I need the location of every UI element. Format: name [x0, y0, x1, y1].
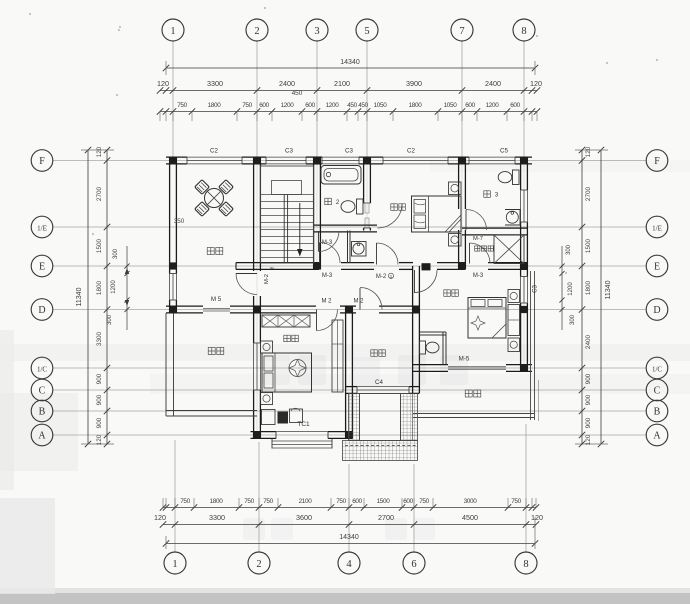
terrace door M-5 threshold	[203, 308, 230, 310]
faint watermark blobs	[243, 355, 468, 540]
dark jamb stub on E wall right of bedroom3 door	[422, 263, 431, 270]
bath3 door arc	[466, 210, 487, 231]
bedroom1 label	[284, 335, 299, 342]
storage room top wall	[462, 227, 528, 229]
svg-text:E: E	[654, 261, 660, 272]
svg-text:120: 120	[531, 513, 543, 522]
bedroom2 door arc on E wall	[377, 243, 399, 265]
svg-text:750: 750	[511, 498, 521, 505]
svg-text:900: 900	[585, 417, 592, 428]
window on left wall E-D	[169, 274, 171, 301]
window C3 top wall 2-3	[266, 156, 306, 158]
svg-text:120: 120	[96, 146, 103, 157]
svg-text:1/E: 1/E	[37, 224, 47, 232]
bedroom1 long cabinet along wall4	[332, 320, 343, 392]
window C2 top wall 1-2	[187, 156, 242, 158]
dim line overall top 14340	[166, 67, 535, 69]
dim line right overall 11340	[600, 150, 602, 444]
grid bubbles bottom	[164, 552, 186, 574]
bedroom3 bed	[468, 298, 506, 339]
dim line left overall 11340	[87, 150, 89, 444]
svg-text:600: 600	[510, 102, 520, 109]
window C2 top wall 5-7	[383, 156, 448, 158]
bedroom1 bedside south	[261, 393, 273, 405]
svg-text:C4: C4	[375, 379, 383, 386]
bath lobby partition x348	[347, 231, 349, 264]
svg-text:C2: C2	[407, 148, 415, 155]
construction grid lines vertical top	[172, 41, 174, 157]
bedroom1 bed	[262, 353, 312, 392]
svg-text:M-7: M-7	[473, 236, 483, 242]
svg-text:1/C: 1/C	[37, 365, 47, 373]
svg-text:1800: 1800	[585, 280, 592, 295]
bathtub bath2	[321, 166, 361, 185]
svg-text:1200: 1200	[486, 102, 500, 109]
bay window TC1	[271, 439, 273, 449]
bedroom2 bedside tables	[449, 182, 462, 195]
construction grid lines vertical bottom	[174, 440, 176, 552]
outer wall left (grid 1) F to D	[169, 157, 171, 274]
svg-text:M-2: M-2	[264, 274, 270, 284]
svg-text:900: 900	[96, 373, 103, 384]
dining table round with chairs	[205, 189, 224, 208]
svg-text:600: 600	[352, 498, 362, 505]
toilet bath2	[357, 199, 364, 214]
bedroom1 bedside north	[261, 341, 273, 353]
svg-text:120: 120	[585, 434, 592, 445]
svg-text:450: 450	[292, 90, 303, 97]
svg-text:M-5: M-5	[459, 356, 470, 363]
svg-text:1050: 1050	[374, 102, 388, 109]
bath partition wall y227	[314, 224, 378, 226]
svg-text:3: 3	[314, 26, 319, 37]
dim line top row1	[160, 90, 537, 92]
svg-text:M-2: M-2	[376, 274, 387, 280]
door arc bedroom2 on wall 5	[378, 204, 403, 229]
svg-text:450: 450	[347, 102, 357, 109]
svg-text:1: 1	[172, 559, 177, 570]
svg-text:1200: 1200	[281, 102, 295, 109]
door arc bath lobby lower (M-3 on E)	[320, 243, 341, 264]
svg-text:2100: 2100	[334, 79, 350, 88]
svg-text:C5: C5	[500, 148, 508, 155]
svg-text:600: 600	[305, 102, 315, 109]
dining label	[207, 248, 223, 255]
grid bubbles top	[162, 19, 184, 41]
svg-text:C3: C3	[285, 148, 293, 155]
grid bubbles left	[31, 150, 53, 172]
svg-text:1500: 1500	[377, 498, 391, 505]
svg-text:1800: 1800	[208, 102, 222, 109]
svg-text:1: 1	[170, 26, 175, 37]
svg-text:F: F	[39, 156, 45, 167]
svg-text:M 2: M 2	[321, 299, 332, 305]
balcony label	[465, 390, 481, 397]
svg-text:B: B	[39, 406, 46, 417]
wall grid 4 D to A	[345, 306, 347, 439]
dim line right window chain 300 1200 300	[561, 246, 563, 330]
door arc bath lobby upper	[319, 231, 340, 252]
wall grid 5 bath right	[363, 157, 365, 203]
outer wall top (F)	[166, 156, 187, 158]
bedroom1 wardrobe	[262, 315, 310, 327]
dining niche end cap	[235, 263, 237, 270]
bedroom1 dresser and stool	[262, 410, 276, 425]
grid bubbles right	[646, 150, 668, 172]
svg-text:600: 600	[465, 102, 475, 109]
svg-text:2700: 2700	[585, 186, 592, 201]
svg-text:120: 120	[585, 146, 592, 157]
svg-text:750: 750	[263, 498, 273, 505]
room C4 labels	[371, 350, 386, 357]
porch step dashed line	[345, 445, 416, 447]
vertical construction lines through plan	[256, 164, 258, 431]
svg-text:C: C	[654, 385, 661, 396]
stair centre stringer	[283, 195, 285, 264]
svg-text:600: 600	[403, 498, 413, 505]
svg-text:A: A	[38, 430, 46, 441]
svg-text:B: B	[654, 406, 661, 417]
window C5 top wall 7-8	[469, 156, 515, 158]
door arc M-2 wall 2 into dining	[236, 274, 257, 295]
porch inner court outline	[360, 394, 401, 441]
svg-text:M-3: M-3	[473, 273, 484, 279]
bath3 toilet	[513, 170, 520, 185]
svg-text:120: 120	[530, 79, 542, 88]
svg-text:900: 900	[96, 394, 103, 405]
window on wall 2 facing terrace	[253, 343, 255, 390]
svg-text:300: 300	[566, 244, 572, 255]
svg-text:1800: 1800	[210, 498, 224, 505]
svg-text:3900: 3900	[406, 79, 422, 88]
svg-text:M 5: M 5	[211, 296, 222, 303]
svg-text:1/E: 1/E	[652, 224, 662, 232]
window on right wall bath3	[520, 190, 522, 222]
svg-text:6: 6	[411, 559, 416, 570]
svg-text:3000: 3000	[464, 498, 478, 505]
svg-text:C3: C3	[345, 148, 353, 155]
svg-text:1800: 1800	[96, 280, 103, 295]
basin lower bath	[352, 242, 367, 257]
svg-text:C: C	[39, 385, 46, 396]
svg-text:1500: 1500	[585, 238, 592, 253]
wall grid 7 F to E	[458, 157, 460, 209]
svg-text:M-3: M-3	[322, 273, 333, 279]
svg-text:1500: 1500	[96, 238, 103, 253]
dim line right main chain	[581, 150, 583, 444]
svg-text:1200: 1200	[111, 280, 117, 294]
balcony parapet right	[530, 271, 532, 420]
svg-text:3300: 3300	[207, 79, 223, 88]
svg-text:1/C: 1/C	[652, 365, 662, 373]
svg-text:5: 5	[364, 26, 369, 37]
bedroom3 bottom wall (1/C) with balcony door M-5	[413, 364, 448, 366]
door arc bedroom3 entry on E	[415, 270, 438, 293]
terrace parapet bottom	[166, 410, 257, 412]
svg-text:4: 4	[346, 559, 352, 570]
svg-text:3300: 3300	[96, 331, 103, 346]
svg-text:M-3: M-3	[322, 240, 333, 246]
svg-text:750: 750	[419, 498, 429, 505]
label wei-3	[484, 191, 491, 198]
label wei-2	[325, 198, 332, 205]
terrace label	[208, 348, 224, 355]
svg-text:3600: 3600	[296, 513, 312, 522]
terrace parapet left	[165, 313, 167, 416]
window C3 on right wall	[520, 277, 522, 304]
door frame jambs wall 5	[364, 202, 371, 204]
svg-text:F: F	[654, 156, 660, 167]
dim line bottom overall 14340	[166, 543, 535, 545]
svg-text:11340: 11340	[605, 280, 612, 299]
svg-text:2100: 2100	[299, 498, 313, 505]
bedroom2 bed	[412, 196, 462, 232]
svg-text:900: 900	[585, 373, 592, 384]
bath3 basin	[505, 210, 520, 226]
svg-text:D: D	[38, 305, 45, 316]
wall D horizontal	[166, 305, 203, 307]
wall grid 2 F to A	[253, 157, 255, 271]
room C4 bottom wall with window	[346, 386, 358, 388]
dim line top row2	[160, 111, 537, 113]
dim line left main chain	[106, 150, 108, 444]
svg-text:600: 600	[259, 102, 269, 109]
svg-text:4500: 4500	[462, 513, 478, 522]
svg-text:750: 750	[244, 498, 254, 505]
svg-text:1200: 1200	[326, 102, 340, 109]
wall grid 3 F to E	[313, 157, 315, 270]
staircase	[261, 166, 314, 263]
wall grid 6 E to C	[412, 266, 414, 393]
svg-text:C2: C2	[210, 148, 218, 155]
bedroom3 label	[444, 290, 459, 297]
svg-text:300: 300	[570, 314, 576, 325]
svg-text:11340: 11340	[76, 287, 83, 306]
svg-text:3300: 3300	[209, 513, 225, 522]
dim line bottom row2	[163, 524, 536, 526]
svg-text:8: 8	[523, 559, 528, 570]
stair direction arrow	[299, 203, 301, 250]
svg-text:450: 450	[358, 102, 368, 109]
storage door arc	[470, 243, 491, 264]
ensuite partition walls bedroom3	[442, 332, 444, 365]
svg-text:1050: 1050	[444, 102, 458, 109]
svg-text:120: 120	[154, 513, 166, 522]
bed decor circle	[289, 360, 306, 377]
svg-text:A: A	[653, 430, 661, 441]
svg-text:14340: 14340	[340, 59, 360, 66]
svg-text:2400: 2400	[279, 79, 295, 88]
svg-text:750: 750	[336, 498, 346, 505]
outer wall right (grid 8) F to 1/C	[520, 157, 522, 190]
svg-text:8: 8	[521, 26, 526, 37]
svg-text:D: D	[653, 305, 660, 316]
dim line left window chain 300 1200 300	[126, 246, 128, 330]
bedroom2 label	[391, 204, 406, 211]
svg-text:C3: C3	[533, 285, 539, 293]
storage room with cross	[494, 235, 524, 264]
svg-text:750: 750	[180, 498, 190, 505]
scan speck noise	[29, 13, 31, 15]
svg-text:300: 300	[113, 248, 119, 259]
ensuite toilet	[420, 341, 426, 354]
window C3 top wall 3-5	[322, 156, 359, 158]
svg-text:TC1: TC1	[297, 421, 310, 428]
svg-text:M 2: M 2	[353, 299, 364, 305]
svg-text:2700: 2700	[96, 186, 103, 201]
svg-text:2700: 2700	[378, 513, 394, 522]
svg-text:750: 750	[177, 102, 187, 109]
balcony parapet bottom	[413, 413, 535, 415]
svg-text:1800: 1800	[409, 102, 423, 109]
svg-text:900: 900	[96, 417, 103, 428]
doors on D wall arcs	[317, 310, 338, 331]
bedroom3 right wall furniture	[508, 290, 520, 303]
svg-text:120: 120	[157, 79, 169, 88]
svg-text:2: 2	[254, 26, 259, 37]
wall E horizontal	[236, 262, 319, 264]
svg-text:750: 750	[242, 102, 252, 109]
dim line bottom row1	[163, 507, 536, 509]
svg-text:120: 120	[96, 434, 103, 445]
svg-text:E: E	[39, 261, 45, 272]
structural columns black	[169, 157, 176, 164]
svg-text:2: 2	[256, 559, 261, 570]
svg-text:350: 350	[174, 218, 185, 225]
stair upper landing box	[272, 181, 302, 195]
svg-text:7: 7	[459, 26, 464, 37]
svg-text:2400: 2400	[585, 334, 592, 349]
svg-text:900: 900	[585, 394, 592, 405]
svg-text:300: 300	[107, 314, 113, 325]
svg-text:14340: 14340	[339, 534, 359, 541]
svg-text:1200: 1200	[568, 282, 574, 296]
svg-text:2400: 2400	[485, 79, 501, 88]
bedroom1 bottom wall (A)	[251, 431, 277, 433]
construction grid lines horizontal	[53, 160, 646, 162]
